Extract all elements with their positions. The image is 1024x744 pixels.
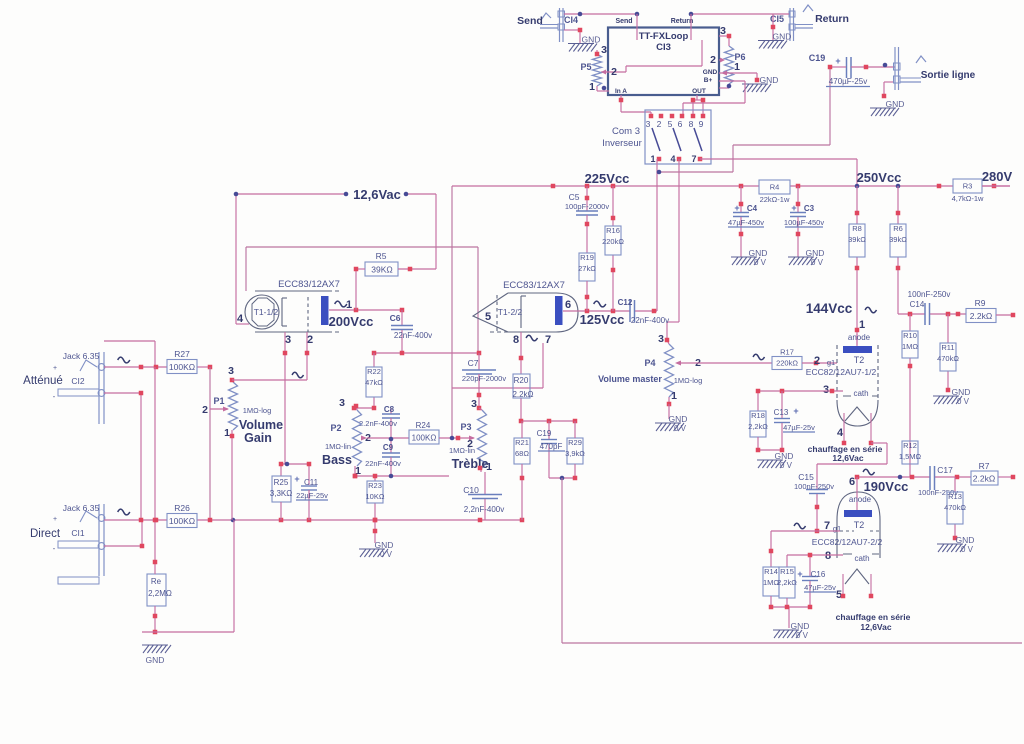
wire 12.6Vac heater: [236, 194, 436, 324]
jack CI5 (Return): [789, 5, 813, 41]
svg-text:R13: R13: [948, 492, 962, 501]
svg-text:C9: C9: [383, 443, 394, 452]
svg-text:P2: P2: [330, 423, 341, 433]
svg-text:68Ω: 68Ω: [515, 449, 529, 458]
anode2 junctions: [585, 309, 657, 314]
svg-text:+: +: [835, 56, 840, 66]
svg-text:GND: GND: [956, 535, 975, 545]
svg-text:C12: C12: [618, 298, 633, 307]
svg-text:0 V: 0 V: [674, 424, 687, 433]
svg-text:C4: C4: [747, 204, 758, 213]
capacitor C11: [294, 474, 328, 520]
wire wiper line bass: [367, 437, 409, 439]
svg-text:R3: R3: [963, 182, 973, 191]
wire grid1 column: [306, 332, 308, 353]
ground CI3 GND pin: [742, 75, 778, 92]
wire R15 bottom: [786, 598, 788, 607]
svg-text:GND: GND: [952, 387, 971, 397]
svg-text:22nF-400v: 22nF-400v: [394, 331, 432, 340]
capacitor C10: [463, 472, 504, 520]
svg-text:In A: In A: [615, 88, 627, 95]
svg-text:3: 3: [471, 398, 477, 410]
capacitor C15: [794, 464, 834, 531]
svg-text:100µF-450v: 100µF-450v: [784, 218, 824, 227]
svg-text:Bass: Bass: [322, 453, 352, 467]
capacitor C13: [774, 391, 816, 450]
svg-text:2,2kΩ: 2,2kΩ: [748, 422, 768, 431]
resistor R12: [899, 441, 922, 464]
wire R17 to grid: [802, 362, 837, 364]
ground CI4: [568, 35, 600, 52]
R23 junctions: [373, 474, 378, 534]
svg-text:R10: R10: [903, 331, 917, 340]
capacitor C19 470pF: [537, 421, 565, 478]
P2 junctions: [353, 404, 359, 479]
sine symbol CI1: [118, 509, 130, 515]
wire R20 node: [521, 420, 575, 422]
R5 junctions: [354, 267, 413, 272]
resistor Re: [147, 574, 172, 606]
resistor R13: [944, 492, 966, 524]
svg-text:T2: T2: [854, 520, 865, 530]
wire send jack tip: [564, 13, 637, 15]
svg-text:7: 7: [824, 520, 830, 532]
svg-text:R16: R16: [606, 226, 620, 235]
junction C4: [739, 202, 744, 237]
capacitor C16: [797, 555, 836, 607]
resistor R5: [365, 251, 398, 276]
svg-text:GND: GND: [375, 540, 394, 550]
svg-text:2.2nF-400v: 2.2nF-400v: [359, 419, 397, 428]
In A junction: [619, 98, 624, 103]
svg-text:anode: anode: [848, 333, 871, 342]
resistor R24: [409, 421, 439, 444]
anode bar T2-1: [843, 346, 872, 353]
svg-text:C6: C6: [390, 313, 401, 323]
svg-text:6: 6: [565, 299, 571, 311]
svg-text:T1-2/2: T1-2/2: [498, 307, 523, 317]
svg-text:22µF-25v: 22µF-25v: [296, 491, 328, 500]
svg-text:27kΩ: 27kΩ: [578, 264, 596, 273]
svg-text:1MΩ-log: 1MΩ-log: [674, 376, 703, 385]
svg-text:chauffage en série: chauffage en série: [836, 612, 911, 622]
resistor R4: [759, 180, 790, 204]
svg-text:0 V: 0 V: [957, 397, 970, 406]
svg-text:ECC82/12AU7-2/2: ECC82/12AU7-2/2: [812, 537, 883, 547]
wire R3 to 280V: [982, 185, 1010, 187]
svg-text:280V: 280V: [982, 169, 1013, 184]
svg-text:Jack 6.35: Jack 6.35: [63, 503, 100, 513]
ground R13: [937, 535, 974, 554]
wire T2b cathode ground node: [771, 607, 810, 628]
C15 junctions: [815, 505, 820, 534]
svg-text:0 V: 0 V: [796, 631, 809, 640]
wire rail left drop: [451, 186, 453, 437]
svg-text:Volume: Volume: [239, 418, 283, 432]
svg-text:Send: Send: [517, 15, 543, 27]
wire P4 wiper to R17: [680, 362, 772, 364]
R13 junctions: [953, 536, 958, 541]
wire P4 bottom: [668, 404, 670, 419]
T2b ground junctions: [769, 605, 813, 610]
svg-text:anode: anode: [849, 495, 872, 504]
svg-text:2: 2: [814, 355, 820, 367]
R17 junctions: [814, 361, 819, 366]
svg-text:g1: g1: [833, 524, 841, 533]
tube T2-1 ECC82 envelope: [837, 345, 878, 443]
wire anode T2-2: [856, 477, 858, 510]
sine symbol anode2: [594, 301, 606, 307]
svg-text:R18: R18: [751, 411, 765, 420]
ground input: [142, 645, 171, 653]
svg-text:GND: GND: [582, 35, 601, 45]
svg-text:Return: Return: [671, 18, 694, 25]
wire cathode1 column: [284, 332, 286, 464]
svg-text:ECC83/12AX7: ECC83/12AX7: [503, 280, 565, 291]
svg-text:225Vcc: 225Vcc: [585, 171, 630, 186]
svg-text:CI5: CI5: [770, 14, 784, 24]
svg-text:CI2: CI2: [71, 376, 85, 386]
svg-text:ECC83/12AX7: ECC83/12AX7: [278, 279, 340, 290]
wire C19 leads: [830, 66, 895, 68]
wire C14 node: [898, 313, 966, 315]
junction P6 top: [727, 34, 732, 89]
heater line dots: [234, 192, 409, 197]
svg-text:125Vcc: 125Vcc: [580, 312, 625, 327]
T2a heater dots: [842, 441, 874, 446]
svg-text:3: 3: [601, 44, 607, 56]
IC U-CI3 TT-FXLoop box: [608, 18, 719, 95]
CI1 junctions: [140, 544, 145, 549]
wire R11 column: [947, 314, 949, 390]
svg-text:200Vcc: 200Vcc: [329, 314, 374, 329]
svg-text:Inverseur: Inverseur: [602, 138, 642, 149]
svg-text:5: 5: [668, 119, 673, 129]
svg-text:3,3KΩ: 3,3KΩ: [270, 489, 292, 498]
wire switch pin7 to 250V rail: [700, 159, 857, 186]
tube T2-2 ECC82 envelope: [837, 492, 880, 596]
svg-text:C19: C19: [809, 53, 826, 63]
capacitor C9: [365, 439, 401, 476]
rail junctions: [551, 184, 997, 189]
svg-text:0 V: 0 V: [811, 258, 824, 267]
wire heater link: [871, 443, 887, 464]
svg-text:R21: R21: [515, 438, 529, 447]
wire cathode T2a: [758, 391, 843, 411]
wire CI3 GND pin out: [719, 73, 757, 80]
svg-text:R29: R29: [568, 438, 582, 447]
wire R13 column: [954, 477, 956, 538]
svg-text:1: 1: [486, 461, 492, 473]
svg-text:g1: g1: [827, 358, 835, 367]
wire CI2 sleeve: [104, 393, 141, 520]
wire CI4 sleeve to ground: [564, 30, 580, 43]
svg-text:220kΩ: 220kΩ: [776, 359, 798, 368]
svg-text:12,6Vac: 12,6Vac: [353, 187, 401, 202]
svg-text:144Vcc: 144Vcc: [806, 301, 853, 316]
svg-text:470µF-25v: 470µF-25v: [829, 77, 867, 86]
svg-text:4: 4: [670, 154, 675, 164]
C14 node junctions: [908, 312, 961, 317]
junction sortie: [882, 94, 887, 99]
R6 junctions: [896, 211, 901, 271]
svg-text:3: 3: [720, 25, 726, 37]
svg-text:9: 9: [699, 119, 704, 129]
cathode T2a junctions: [756, 389, 835, 394]
svg-text:3: 3: [658, 333, 664, 345]
wire Re column: [154, 367, 156, 632]
svg-text:TT-FXLoop: TT-FXLoop: [639, 31, 689, 42]
ground T2b: [773, 621, 809, 640]
wire C19p bottom node: [549, 477, 575, 479]
svg-text:R12: R12: [903, 441, 917, 450]
svg-text:R17: R17: [780, 348, 794, 357]
capacitor C6: [390, 310, 433, 353]
cathode1 junctions: [279, 462, 312, 467]
C19p bottom junctions: [520, 476, 578, 481]
wire CI3 internal: [601, 40, 702, 72]
potentiometer P3: [478, 408, 487, 472]
svg-text:GND: GND: [886, 99, 905, 109]
wire send into CI3: [636, 14, 638, 40]
resistor R29: [565, 438, 585, 464]
svg-text:22nF-400v: 22nF-400v: [365, 459, 401, 468]
sine symbol heater2: [526, 335, 537, 341]
svg-text:C13: C13: [774, 408, 789, 417]
resistor R21: [514, 438, 530, 464]
svg-text:R11: R11: [941, 343, 954, 352]
svg-text:12,6Vac: 12,6Vac: [832, 453, 863, 463]
R22 junctions: [352, 406, 377, 411]
svg-text:C3: C3: [804, 204, 815, 213]
junction C19: [828, 63, 888, 70]
svg-text:R23: R23: [368, 481, 382, 490]
junction C3: [796, 202, 801, 237]
svg-text:T2: T2: [854, 355, 865, 365]
svg-text:P3: P3: [460, 422, 471, 432]
P1 junctions: [230, 378, 235, 439]
resistor R9: [966, 298, 996, 323]
svg-text:C10: C10: [463, 485, 479, 495]
svg-text:+: +: [793, 406, 798, 416]
R10 junctions: [908, 364, 913, 369]
svg-text:2.2kΩ: 2.2kΩ: [512, 390, 533, 399]
svg-text:470kΩ: 470kΩ: [937, 354, 959, 363]
svg-text:470kΩ: 470kΩ: [944, 503, 966, 512]
svg-text:1MΩ-lin: 1MΩ-lin: [325, 442, 351, 451]
wire R6 column: [897, 186, 899, 314]
svg-text:12,6Vac: 12,6Vac: [860, 622, 891, 632]
anode bar T2-2: [844, 510, 872, 517]
R19 junctions: [585, 196, 590, 300]
wire switch pin4 down to P4: [667, 159, 679, 340]
ground R11: [933, 387, 970, 406]
svg-text:0 V: 0 V: [380, 550, 393, 559]
resistor R16: [602, 226, 624, 255]
svg-text:100KΩ: 100KΩ: [169, 362, 195, 372]
wire R24 to P3 wiper: [439, 437, 474, 439]
svg-text:0 V: 0 V: [780, 461, 793, 470]
svg-text:1: 1: [650, 154, 655, 164]
svg-text:Com 3: Com 3: [612, 126, 640, 137]
wire feedback top: [246, 247, 478, 353]
wire return into CI3: [690, 14, 692, 40]
bus junctions: [139, 518, 525, 523]
sine symbol CI2: [118, 357, 130, 363]
svg-text:GND: GND: [760, 75, 779, 85]
svg-text:3: 3: [339, 397, 345, 409]
svg-text:2,2kΩ: 2,2kΩ: [777, 578, 797, 587]
svg-text:39KΩ: 39KΩ: [371, 265, 392, 275]
wire R18 bottom: [758, 437, 782, 450]
resistor R18: [748, 411, 768, 437]
svg-text:Gain: Gain: [244, 431, 272, 445]
wire output line to C19: [659, 67, 830, 172]
P3 bottom junction: [478, 466, 483, 471]
svg-text:190Vcc: 190Vcc: [864, 479, 909, 494]
tube T1-2/2 ECC83: [473, 293, 578, 332]
svg-text:R22: R22: [367, 367, 381, 376]
svg-text:Trèble: Trèble: [452, 457, 489, 471]
svg-text:R5: R5: [376, 251, 387, 261]
junction CI5: [689, 12, 776, 30]
svg-text:220pF-2000v: 220pF-2000v: [462, 374, 506, 383]
potentiometer P1: [210, 380, 238, 436]
resistor R26: [167, 503, 197, 528]
svg-text:250Vcc: 250Vcc: [857, 170, 902, 185]
svg-text:GND: GND: [791, 621, 810, 631]
svg-text:Jack 6.35: Jack 6.35: [63, 351, 100, 361]
capacitor C17: [918, 465, 958, 497]
svg-text:47µF-25v: 47µF-25v: [804, 583, 836, 592]
svg-text:1,5MΩ: 1,5MΩ: [899, 452, 922, 461]
svg-text:R6: R6: [893, 224, 903, 233]
resistor R3: [952, 179, 984, 203]
capacitor C3: [784, 186, 824, 257]
cath T2b junctions: [808, 553, 813, 558]
wire sortie sleeve to ground: [884, 82, 893, 96]
sine symbol P4 out: [753, 354, 764, 360]
svg-text:100nF-250v: 100nF-250v: [908, 290, 951, 299]
potentiometer P5: [593, 50, 610, 91]
potentiometer P6: [719, 36, 734, 88]
resistor R17: [772, 348, 802, 370]
svg-text:220kΩ: 220kΩ: [602, 237, 624, 246]
wire R29 bottom: [574, 421, 576, 478]
svg-text:CI1: CI1: [71, 528, 85, 538]
resistor R27: [167, 349, 197, 374]
resistor R19: [578, 253, 596, 281]
svg-text:1: 1: [734, 61, 740, 73]
wire anode T2-1: [856, 334, 858, 346]
bass bottom junctions: [353, 474, 394, 479]
svg-text:C16: C16: [811, 570, 826, 579]
wire grid T2b: [771, 531, 840, 567]
sine symbol grid1: [292, 372, 303, 378]
svg-text:C19: C19: [537, 429, 552, 438]
svg-text:3: 3: [646, 119, 651, 129]
wire CI5 sleeve to ground: [772, 14, 774, 40]
grid T2b junctions: [769, 549, 774, 554]
junction P5 top: [595, 52, 607, 91]
svg-text:GND: GND: [773, 32, 792, 42]
svg-text:cath: cath: [854, 554, 869, 563]
wire ground bus: [104, 519, 522, 521]
wire heater pin4: [236, 323, 249, 325]
CI2 junctions: [139, 365, 213, 396]
svg-text:GND: GND: [146, 655, 165, 665]
wire R16 column: [612, 186, 614, 311]
resistor R25: [270, 476, 292, 502]
resistor R15: [777, 567, 797, 598]
svg-text:1: 1: [671, 390, 677, 402]
svg-text:47µF-450v: 47µF-450v: [728, 218, 764, 227]
switch box Com3 Inverseur: [645, 110, 711, 164]
wire CI2 switch: [104, 341, 155, 367]
svg-text:8: 8: [513, 334, 519, 346]
resistor R22: [365, 367, 383, 397]
svg-text:Atténué: Atténué: [23, 375, 63, 387]
svg-text:+: +: [53, 365, 57, 372]
OUT junctions: [691, 98, 706, 103]
svg-text:22kΩ-1w: 22kΩ-1w: [760, 195, 790, 204]
svg-text:6: 6: [849, 476, 855, 488]
svg-text:C17: C17: [937, 465, 953, 475]
svg-text:100pF-2000v: 100pF-2000v: [565, 202, 609, 211]
wire R9 out: [996, 314, 1013, 316]
capacitor C4: [728, 186, 764, 257]
svg-text:5: 5: [485, 311, 491, 323]
svg-text:3: 3: [285, 334, 291, 346]
coupling node junctions: [372, 351, 482, 356]
svg-text:3: 3: [823, 384, 829, 396]
svg-text:GND: GND: [806, 248, 825, 258]
wire CI3 OUT to switch: [693, 95, 703, 114]
resistor R7: [971, 461, 998, 485]
potentiometer P2: [353, 406, 368, 476]
wire R19 to anode: [586, 281, 588, 311]
svg-text:Sortie ligne: Sortie ligne: [921, 70, 976, 81]
R9 out junction: [1011, 313, 1016, 318]
wire grid1 line: [232, 353, 307, 380]
jack Sortie ligne: [894, 47, 927, 90]
switch bottom pins: [657, 157, 703, 162]
capacitor C5: [565, 186, 609, 253]
svg-text:2: 2: [467, 438, 473, 450]
svg-text:1: 1: [859, 319, 865, 331]
ground R18: [757, 451, 793, 470]
svg-text:47kΩ: 47kΩ: [365, 378, 383, 387]
svg-text:4,7kΩ-1w: 4,7kΩ-1w: [952, 194, 984, 203]
anode2b junctions: [855, 475, 1016, 480]
R11 junctions: [946, 388, 951, 393]
svg-text:0 V: 0 V: [961, 545, 974, 554]
wire C15 top: [817, 463, 887, 465]
svg-text:CI4: CI4: [564, 15, 578, 25]
pin junctions T1: [283, 351, 310, 356]
svg-text:C5: C5: [569, 192, 580, 202]
svg-text:GND: GND: [749, 248, 768, 258]
svg-text:2.2kΩ: 2.2kΩ: [970, 311, 992, 321]
svg-text:3,9kΩ: 3,9kΩ: [565, 449, 585, 458]
svg-text:T1-1/2: T1-1/2: [254, 307, 279, 317]
svg-text:R15: R15: [780, 567, 794, 576]
svg-text:2: 2: [657, 119, 662, 129]
wire switch pin1 down to C12: [656, 159, 658, 311]
svg-text:R7: R7: [979, 461, 990, 471]
jack CI2 (Attenue): [53, 352, 105, 424]
T2b heater dots: [841, 594, 874, 599]
